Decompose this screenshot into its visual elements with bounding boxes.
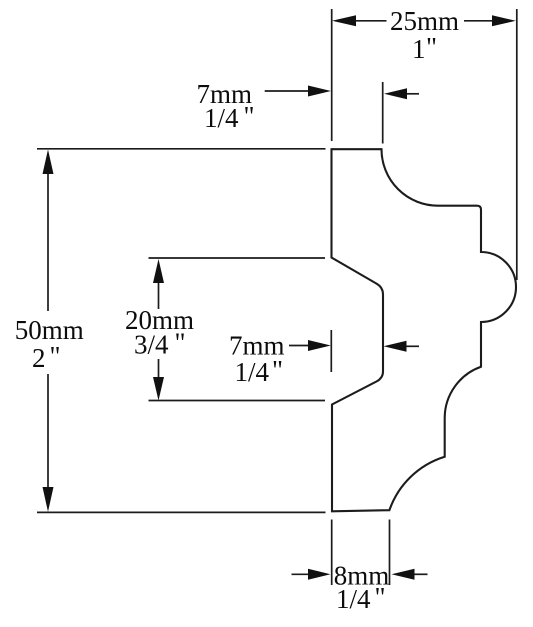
svg-text:1/4: 1/4 xyxy=(336,584,371,614)
arrowhead 7mm mid right xyxy=(384,341,407,352)
7mm top leader left xyxy=(265,90,310,92)
arrowhead 20mm down xyxy=(153,377,164,401)
arrowhead 7mm top left xyxy=(308,86,331,97)
extension line left face (25mm/7mm) xyxy=(331,9,333,141)
svg-text:2: 2 xyxy=(32,343,46,373)
25mm dimension line right segment xyxy=(464,20,493,22)
extension line 8mm left xyxy=(331,520,333,586)
svg-text:25mm: 25mm xyxy=(390,6,459,36)
arrowhead 25mm right xyxy=(492,15,516,26)
extension line 20mm top xyxy=(149,257,326,259)
arrowhead 50mm up xyxy=(43,150,54,175)
svg-text:1: 1 xyxy=(412,34,426,64)
svg-text:": " xyxy=(175,328,186,358)
arrowhead 8mm left xyxy=(308,569,331,580)
svg-text:1/4: 1/4 xyxy=(235,357,270,387)
svg-text:": " xyxy=(375,582,386,612)
svg-text:1/4: 1/4 xyxy=(204,103,239,133)
extension line 8mm right xyxy=(389,520,391,586)
25mm dimension line left segment xyxy=(355,20,387,22)
extension line right (25mm) xyxy=(516,9,518,280)
extension line 50mm top xyxy=(37,148,326,150)
svg-text:": " xyxy=(272,355,283,385)
20mm dimension line upper segment xyxy=(158,281,160,309)
7mm mid leader left xyxy=(289,345,310,347)
20mm dimension line lower segment xyxy=(158,359,160,379)
arrowhead 25mm left xyxy=(332,15,356,26)
arrowhead 7mm top right xyxy=(384,88,407,99)
arrowhead 20mm up xyxy=(153,259,164,283)
svg-text:": " xyxy=(426,32,437,62)
moulding profile outline xyxy=(332,149,517,511)
svg-text:3/4: 3/4 xyxy=(134,330,169,360)
arrowhead 50mm down xyxy=(43,487,54,512)
50mm dimension line lower segment xyxy=(47,374,49,489)
7mm mid leader right xyxy=(406,345,420,347)
arrowhead 8mm right xyxy=(392,569,415,580)
extension line 7mm mid left xyxy=(330,330,332,372)
8mm leader left xyxy=(292,573,311,575)
7mm top leader right xyxy=(406,93,419,95)
arrowhead 7mm mid left xyxy=(308,340,331,351)
svg-text:": " xyxy=(50,341,61,371)
8mm leader right xyxy=(414,573,428,575)
50mm dimension line upper segment xyxy=(47,172,49,311)
svg-text:": " xyxy=(244,101,255,131)
extension line 20mm bottom xyxy=(149,400,326,402)
extension line 7mm top right xyxy=(382,82,384,144)
extension line 50mm bottom xyxy=(37,511,326,513)
